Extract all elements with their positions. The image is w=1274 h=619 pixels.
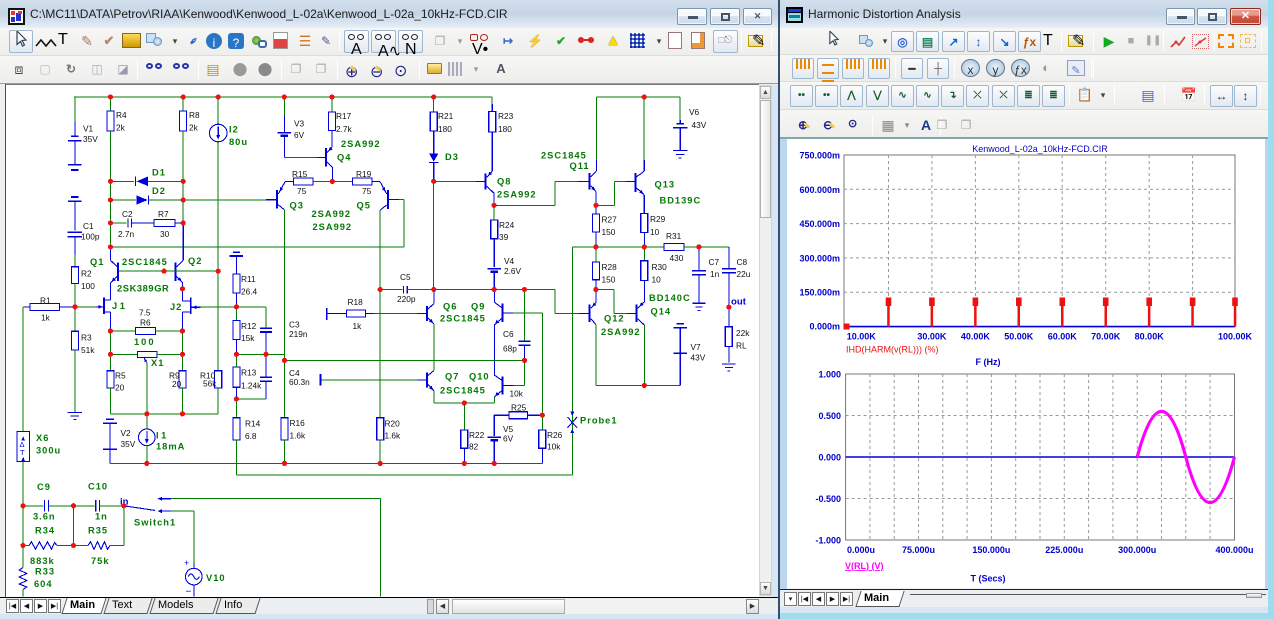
svg-text:2.7k: 2.7k	[336, 124, 353, 134]
ground below V6	[673, 150, 688, 152]
svg-text:68p: 68p	[503, 344, 517, 354]
resistor R2	[71, 267, 78, 284]
svg-text:220p: 220p	[397, 294, 416, 304]
jfet J1	[103, 298, 105, 314]
wire Q7 base row	[321, 379, 417, 381]
svg-text:80.00K: 80.00K	[1135, 332, 1165, 342]
capacitor C8	[722, 268, 736, 270]
resistor R21	[433, 97, 435, 112]
svg-text:C7: C7	[709, 257, 720, 267]
wire Q6 emitter to Q7 collector	[433, 324, 435, 371]
resistor R13	[233, 367, 240, 387]
svg-text:R29: R29	[650, 214, 666, 224]
wire VAS to Q13 base	[596, 204, 615, 206]
svg-text:R28: R28	[602, 262, 618, 272]
svg-text:Q2: Q2	[188, 256, 202, 266]
svg-text:225.000u: 225.000u	[1045, 545, 1083, 555]
svg-text:150.000u: 150.000u	[972, 545, 1010, 555]
svg-text:2SC1845: 2SC1845	[440, 386, 486, 396]
svg-text:R17: R17	[336, 111, 352, 121]
svg-text:Q12: Q12	[604, 314, 625, 324]
capacitor C6	[524, 290, 526, 342]
svg-text:Q6: Q6	[443, 302, 457, 312]
wire Q12 base to VAS lower	[554, 290, 556, 314]
svg-text:BD140C: BD140C	[649, 293, 691, 303]
transistor Q4	[325, 148, 327, 166]
capacitor C2	[111, 222, 127, 224]
transistor Q12	[589, 304, 591, 322]
svg-text:43V: 43V	[691, 353, 706, 363]
svg-text:82: 82	[469, 442, 479, 452]
wire compensation row	[285, 359, 525, 361]
resistor R5	[109, 354, 111, 370]
svg-text:2SA992: 2SA992	[313, 222, 353, 232]
svg-text:R30: R30	[652, 262, 668, 272]
svg-text:2k: 2k	[189, 123, 199, 133]
svg-text:2.6V: 2.6V	[504, 266, 522, 276]
svg-text:-1.000: -1.000	[815, 536, 841, 546]
svg-text:75: 75	[297, 186, 307, 196]
svg-text:R22: R22	[469, 430, 485, 440]
svg-text:10.00K: 10.00K	[847, 332, 877, 342]
resistor R3	[74, 307, 76, 331]
svg-text:Q7: Q7	[445, 372, 459, 382]
svg-text:300.000m: 300.000m	[799, 253, 840, 263]
wire R4 column junctions	[110, 181, 112, 247]
svg-text:10: 10	[650, 227, 660, 237]
battery tick above C1	[71, 196, 79, 198]
transistor Q8	[485, 174, 487, 190]
resistor R30	[643, 247, 645, 261]
resistor R10	[215, 371, 222, 388]
svg-text:V(RL) (V): V(RL) (V)	[845, 561, 884, 571]
resistor R9	[181, 354, 183, 370]
svg-text:J2: J2	[170, 302, 182, 312]
wire R11 node to C3	[236, 306, 266, 308]
transistor Q10	[502, 377, 504, 395]
port tie Q7 input	[320, 374, 322, 386]
svg-text:J 1: J 1	[112, 301, 125, 311]
resistor R18	[328, 313, 347, 315]
diode D3	[429, 153, 438, 161]
svg-text:R14: R14	[245, 419, 261, 429]
svg-text:R35: R35	[88, 526, 108, 536]
transistor Q3	[276, 190, 278, 209]
svg-text:450.000m: 450.000m	[799, 219, 840, 229]
resistor R34	[23, 545, 29, 547]
resistor R11	[233, 274, 240, 293]
wire feedback row right	[572, 246, 664, 248]
capacitor C4	[265, 354, 267, 377]
wire X6 to C9 node	[22, 462, 24, 506]
resistor R22	[463, 403, 465, 430]
capacitor C9	[23, 505, 44, 507]
svg-text:39: 39	[499, 232, 509, 242]
svg-text:430: 430	[670, 253, 684, 263]
ground below R3	[74, 350, 76, 412]
battery V4	[487, 268, 501, 270]
wire Q3 collector down	[284, 210, 286, 360]
wire switch lower throw to V10	[171, 510, 194, 512]
svg-text:−: −	[186, 587, 192, 598]
wire R2 to node	[74, 284, 76, 307]
wire R1 left down to X6	[23, 306, 25, 308]
capacitor C1	[68, 231, 82, 233]
svg-text:R26: R26	[547, 430, 563, 440]
resistor R12	[235, 307, 237, 321]
svg-text:R20: R20	[385, 419, 401, 429]
svg-text:T: T	[20, 448, 25, 457]
svg-text:Q14: Q14	[651, 307, 672, 317]
wire ground rail	[110, 462, 542, 464]
svg-text:1k: 1k	[41, 313, 51, 323]
svg-text:2.7n: 2.7n	[118, 229, 135, 239]
wire Q1 Q2 base row	[119, 270, 218, 272]
capacitor C3	[260, 327, 272, 329]
svg-text:Q1: Q1	[90, 257, 104, 267]
svg-text:180: 180	[438, 124, 452, 134]
svg-text:2SC1845: 2SC1845	[122, 257, 168, 267]
svg-text:20: 20	[115, 383, 125, 393]
battery V3	[283, 97, 285, 115]
svg-text:2SC1845: 2SC1845	[440, 314, 486, 324]
battery V7	[677, 323, 684, 325]
resistor R29	[641, 214, 648, 233]
svg-text:R8: R8	[189, 110, 200, 120]
svg-text:0.500: 0.500	[818, 411, 841, 421]
wire V3 to Q4 base	[284, 156, 317, 158]
svg-text:180: 180	[498, 124, 512, 134]
wire D3 node to Q8 base and down to C5 row	[434, 180, 476, 182]
svg-text:15k: 15k	[241, 333, 255, 343]
svg-text:V10: V10	[206, 573, 226, 583]
svg-text:600.000m: 600.000m	[799, 185, 840, 195]
svg-text:R11: R11	[241, 274, 256, 284]
svg-text:R34: R34	[35, 526, 55, 536]
transistor Q2	[175, 262, 177, 281]
wire riaa verticals	[22, 506, 24, 546]
svg-text:C3: C3	[289, 320, 300, 330]
svg-text:75.000u: 75.000u	[902, 545, 935, 555]
resistor R35	[74, 545, 89, 547]
svg-text:6V: 6V	[503, 434, 514, 444]
svg-text:D1: D1	[152, 168, 166, 178]
resistor R26	[541, 415, 543, 430]
resistor R24	[493, 205, 495, 220]
svg-text:1k: 1k	[353, 321, 363, 331]
wire Q9 base to R25 column	[513, 312, 542, 314]
wire X1 wiper down	[146, 363, 148, 414]
resistor R27	[595, 205, 597, 214]
svg-text:35V: 35V	[121, 439, 136, 449]
svg-text:R15: R15	[292, 169, 308, 179]
wire switch upper throw feedback	[171, 498, 381, 500]
probe Probe1	[568, 417, 578, 428]
resistor RL	[728, 307, 730, 327]
svg-text:2SA992: 2SA992	[497, 190, 537, 200]
svg-text:80u: 80u	[229, 137, 248, 147]
svg-text:883k: 883k	[30, 556, 55, 566]
svg-text:Kenwood_L-02a_10kHz-FCD.CIR: Kenwood_L-02a_10kHz-FCD.CIR	[972, 144, 1108, 154]
svg-text:R13: R13	[241, 368, 257, 378]
wire top right bus	[597, 96, 681, 98]
transistor Q5	[387, 190, 389, 209]
svg-text:R21: R21	[438, 111, 454, 121]
svg-text:56k: 56k	[203, 379, 217, 389]
svg-text:10k: 10k	[547, 442, 561, 452]
resistor R4	[110, 97, 112, 111]
svg-text:2SA992: 2SA992	[601, 327, 641, 337]
svg-text:22u: 22u	[737, 269, 751, 279]
svg-text:RL: RL	[736, 341, 747, 351]
svg-text:2SA992: 2SA992	[312, 209, 352, 219]
svg-text:R24: R24	[499, 220, 515, 230]
wire output emitter rail	[595, 324, 597, 385]
svg-text:150.000m: 150.000m	[799, 288, 840, 298]
svg-text:400.000u: 400.000u	[1215, 545, 1253, 555]
svg-text:R2: R2	[81, 269, 92, 279]
svg-text:0.000u: 0.000u	[847, 545, 875, 555]
ground below RL	[722, 363, 736, 365]
transistor Q14	[636, 304, 638, 322]
svg-text:1n: 1n	[710, 269, 720, 279]
transistor Q9	[502, 304, 504, 323]
svg-text:Q9: Q9	[471, 302, 485, 312]
svg-text:D3: D3	[445, 152, 459, 162]
svg-text:10k: 10k	[510, 389, 524, 399]
svg-text:50.00K: 50.00K	[1004, 332, 1034, 342]
svg-text:Probe1: Probe1	[580, 416, 618, 426]
svg-text:V3: V3	[294, 119, 305, 129]
svg-text:6V: 6V	[294, 130, 305, 140]
svg-text:150: 150	[602, 227, 616, 237]
svg-text:V6: V6	[689, 107, 700, 117]
resistor R15	[294, 178, 314, 185]
svg-text:R19: R19	[356, 169, 372, 179]
svg-text:BD139C: BD139C	[660, 196, 702, 206]
svg-text:26.4: 26.4	[241, 287, 258, 297]
svg-text:75k: 75k	[91, 556, 110, 566]
svg-text:100: 100	[81, 281, 95, 291]
svg-text:300.000u: 300.000u	[1118, 545, 1156, 555]
svg-text:0.000m: 0.000m	[809, 322, 840, 332]
resistor R23	[491, 97, 493, 104]
svg-text:R4: R4	[116, 110, 127, 120]
transistor Q13	[634, 173, 636, 192]
svg-text:1n: 1n	[95, 512, 108, 522]
svg-text:R7: R7	[158, 209, 169, 219]
svg-text:I 1: I 1	[156, 431, 166, 441]
svg-text:C1: C1	[83, 221, 94, 231]
resistor R20	[379, 290, 381, 418]
svg-text:3.6n: 3.6n	[33, 512, 56, 522]
svg-text:Q10: Q10	[469, 372, 490, 382]
svg-text:C2: C2	[122, 209, 133, 219]
resistor R16	[284, 360, 286, 417]
wire Q10 base to C6 node	[513, 384, 524, 386]
svg-text:6.8: 6.8	[245, 431, 257, 441]
svg-text:R27: R27	[602, 215, 618, 225]
svg-text:R12: R12	[241, 321, 257, 331]
svg-text:V2: V2	[121, 428, 132, 438]
svg-text:100: 100	[134, 337, 156, 347]
svg-text:IHD(HARM(v(RL))) (%): IHD(HARM(v(RL))) (%)	[846, 345, 938, 355]
wire Q5 collector down	[379, 210, 381, 290]
resistor R28	[595, 247, 597, 262]
svg-text:Q3: Q3	[290, 201, 304, 211]
svg-text:Q5: Q5	[357, 201, 371, 211]
svg-text:7.5: 7.5	[139, 308, 151, 318]
battery V6	[679, 97, 681, 120]
svg-text:Switch1: Switch1	[134, 518, 176, 528]
svg-text:F (Hz): F (Hz)	[976, 357, 1001, 367]
svg-text:70.00K: 70.00K	[1091, 332, 1121, 342]
wire predriver emitter row	[433, 391, 435, 403]
svg-text:1.6k: 1.6k	[385, 431, 402, 441]
svg-text:+: +	[184, 558, 189, 568]
wire Q14 base path	[596, 289, 614, 291]
svg-text:100p: 100p	[81, 232, 100, 242]
wire top supply bus	[74, 96, 492, 98]
svg-text:I2: I2	[229, 125, 239, 135]
svg-text:60.00K: 60.00K	[1048, 332, 1078, 342]
svg-text:out: out	[731, 297, 747, 308]
svg-text:V4: V4	[504, 256, 515, 266]
svg-text:C5: C5	[400, 272, 411, 282]
svg-text:Q11: Q11	[570, 161, 590, 171]
resistor R7	[154, 220, 175, 227]
transistor Q6	[418, 313, 426, 315]
svg-text:30: 30	[160, 229, 170, 239]
battery V5	[493, 415, 495, 436]
svg-text:C6: C6	[503, 329, 514, 339]
port tie R18 input	[326, 308, 328, 320]
svg-text:R33: R33	[35, 567, 55, 577]
svg-text:V7: V7	[691, 342, 702, 352]
wire source row	[110, 413, 218, 415]
svg-text:V1: V1	[83, 124, 94, 134]
svg-text:43V: 43V	[692, 120, 707, 130]
resistor R14	[235, 399, 237, 418]
resistor R8	[182, 97, 184, 111]
svg-text:R5: R5	[115, 371, 126, 381]
wire feedback column to output divider	[236, 474, 572, 476]
ground below C7	[693, 302, 706, 304]
svg-text:604: 604	[34, 579, 53, 589]
resistor R17	[331, 97, 333, 112]
svg-text:R6: R6	[140, 318, 151, 328]
svg-text:R1: R1	[40, 296, 51, 306]
svg-text:C8: C8	[737, 257, 748, 267]
svg-text:C10: C10	[88, 482, 108, 492]
svg-text:2k: 2k	[116, 123, 126, 133]
wire C5 row to Q12 base drop	[434, 289, 555, 291]
svg-text:75: 75	[362, 186, 372, 196]
svg-text:20: 20	[172, 379, 182, 389]
svg-text:R16: R16	[290, 418, 306, 428]
wire Q9 emitter to Q10 collector	[493, 325, 495, 375]
wire VAS node row	[494, 204, 555, 206]
svg-text:60.3n: 60.3n	[289, 377, 310, 387]
svg-text:40.00K: 40.00K	[961, 332, 991, 342]
svg-text:C9: C9	[37, 482, 51, 492]
svg-text:Q13: Q13	[655, 180, 676, 190]
battery V1	[74, 97, 76, 122]
svg-text:100.00K: 100.00K	[1218, 332, 1253, 342]
svg-text:750.000m: 750.000m	[799, 151, 840, 161]
resistor R31	[664, 243, 684, 250]
current source I1	[146, 414, 148, 429]
svg-text:V5: V5	[503, 424, 514, 434]
delay line X6	[17, 432, 30, 462]
svg-text:219n: 219n	[289, 329, 308, 339]
svg-text:R25: R25	[511, 403, 527, 413]
wire I2 to Q1/Q2 base row and R10	[217, 142, 219, 371]
potentiometer X1	[109, 331, 111, 354]
resistor R6	[110, 330, 135, 332]
svg-text:2SK389GR: 2SK389GR	[117, 284, 169, 294]
switch Switch1	[124, 506, 155, 511]
resistor R25	[494, 414, 509, 416]
current source I2	[217, 97, 219, 124]
svg-text:0.000: 0.000	[818, 453, 841, 463]
capacitor C7	[698, 247, 700, 270]
svg-text:R31: R31	[666, 231, 682, 241]
svg-text:R3: R3	[81, 333, 92, 343]
svg-text:X1: X1	[151, 358, 164, 368]
wire R13 C4 row	[236, 398, 266, 400]
resistor R33	[22, 546, 24, 568]
svg-text:1.24k: 1.24k	[241, 381, 262, 391]
svg-text:150: 150	[602, 275, 616, 285]
transistor Q7	[426, 372, 428, 387]
svg-text:R23: R23	[498, 111, 514, 121]
svg-text:18mA: 18mA	[156, 442, 185, 452]
jfet J2	[190, 298, 192, 314]
svg-text:10: 10	[652, 275, 662, 285]
capacitor C10	[74, 505, 95, 507]
svg-text:-0.500: -0.500	[815, 494, 841, 504]
resistor R19	[353, 178, 373, 185]
wire feedback row to Q5 base	[111, 246, 405, 248]
svg-text:T (Secs): T (Secs)	[970, 574, 1005, 584]
diode D2	[111, 199, 137, 201]
svg-text:30.00K: 30.00K	[917, 332, 947, 342]
svg-text:2SA992: 2SA992	[341, 139, 381, 149]
svg-text:X6: X6	[36, 433, 49, 443]
svg-text:D2: D2	[152, 186, 166, 196]
wire R12 C3 row	[236, 353, 284, 355]
wire R31 to C8	[699, 246, 729, 248]
svg-text:1.000: 1.000	[818, 370, 841, 380]
svg-text:R18: R18	[348, 297, 364, 307]
resistor R1	[30, 303, 60, 310]
svg-text:35V: 35V	[83, 134, 98, 144]
transistor Q11	[589, 173, 591, 190]
battery V2	[106, 418, 114, 420]
svg-text:1.6k: 1.6k	[290, 431, 307, 441]
battery tick above R11	[233, 251, 240, 253]
svg-text:Q4: Q4	[337, 153, 351, 163]
svg-text:300u: 300u	[36, 446, 61, 456]
transistor Q1	[117, 262, 119, 281]
svg-text:22k: 22k	[736, 328, 750, 338]
capacitor C5	[380, 289, 402, 291]
svg-text:51k: 51k	[81, 345, 95, 355]
diode D1	[111, 180, 135, 182]
svg-text:Q8: Q8	[497, 177, 511, 187]
svg-text:2SC1845: 2SC1845	[541, 151, 587, 161]
